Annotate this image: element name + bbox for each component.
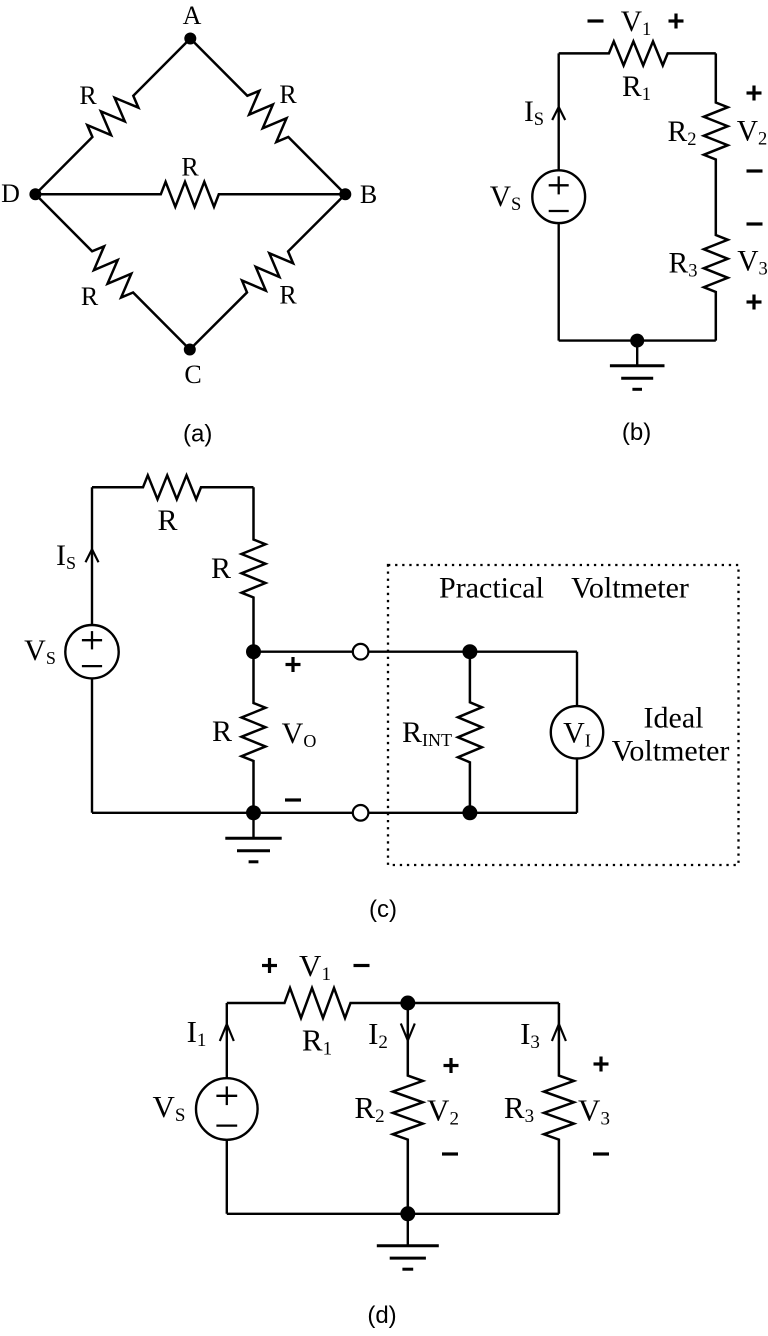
svg-text:VS: VS [490, 181, 522, 215]
resistor R2 (d) [393, 1003, 423, 1214]
label R (upper left) [79, 81, 97, 110]
node A [183, 1, 202, 45]
svg-text:R1: R1 [302, 1023, 332, 1060]
svg-text:Voltmeter: Voltmeter [571, 572, 689, 605]
svg-text:(c): (c) [369, 896, 397, 923]
label plus V1 minus (d) [262, 948, 370, 985]
junction dot mid-top (c) [246, 644, 261, 659]
resistor R1 (d) [227, 988, 408, 1018]
label R (lower left) [81, 282, 99, 311]
label minus (c) [285, 798, 301, 801]
label Practical Voltmeter (c) [439, 572, 689, 605]
svg-text:V2: V2 [427, 1093, 459, 1130]
svg-text:R1: R1 [622, 71, 651, 105]
svg-text:V1: V1 [621, 6, 652, 40]
resistor R right-vert (c) [242, 487, 266, 651]
node B [339, 180, 377, 209]
wire right (b) with R2 R3 [0, 0, 1, 1]
label R3 (d) [504, 1090, 534, 1127]
wire bottom (c) [92, 812, 577, 814]
wire top right (d) [408, 1002, 559, 1004]
svg-text:IS: IS [56, 539, 76, 573]
ground (b) [610, 341, 665, 390]
junction dot mid-bottom (c) [246, 805, 261, 820]
current arrow IS (c) [86, 549, 99, 562]
svg-text:I2: I2 [368, 1016, 388, 1053]
label I3 (d) [520, 1016, 540, 1053]
current arrow I2 (d) [401, 1024, 415, 1041]
caption (c) [369, 896, 397, 923]
label R (middle) [181, 153, 199, 182]
label I2 (d) [368, 1016, 388, 1053]
svg-text:R: R [212, 715, 232, 748]
node D [1, 179, 41, 208]
label R1 (d) [302, 1023, 332, 1060]
label Ideal Voltmeter (c) [612, 702, 730, 768]
wire bottom (d) [227, 1213, 559, 1215]
label plus V2 minus (d) [427, 1058, 459, 1154]
wire bottom (b) [559, 339, 716, 341]
svg-text:D: D [1, 179, 20, 208]
voltage source VS (d) [196, 1078, 258, 1140]
svg-text:R: R [279, 281, 297, 310]
wire left (d) with Vs gap [226, 1003, 228, 1214]
resistor R1 (b) [559, 41, 716, 65]
svg-text:Voltmeter: Voltmeter [612, 735, 730, 768]
label plus (c) [286, 657, 301, 672]
wire/resistor R (D to A) [35, 39, 190, 195]
junction dot rint-top (c) [462, 644, 477, 659]
svg-text:R: R [211, 552, 231, 585]
svg-text:R2: R2 [354, 1090, 384, 1127]
caption (d) [367, 1302, 396, 1329]
svg-text:RINT: RINT [402, 716, 452, 750]
svg-text:R: R [81, 282, 99, 311]
svg-text:R: R [181, 153, 199, 182]
node C [184, 344, 202, 390]
caption (a) [183, 421, 212, 448]
resistor R lower (c) [242, 652, 266, 813]
svg-text:(a): (a) [183, 421, 212, 448]
label R mid (c) [211, 552, 231, 585]
svg-text:(d): (d) [367, 1302, 396, 1329]
svg-text:I3: I3 [520, 1016, 540, 1053]
svg-text:VO: VO [282, 717, 317, 751]
junction dot rint-bottom (c) [462, 805, 477, 820]
label R (lower right) [279, 281, 297, 310]
voltage source VS (b) [532, 170, 585, 223]
svg-text:(b): (b) [622, 419, 651, 446]
resistor RINT (c) [458, 652, 482, 813]
svg-text:A: A [183, 1, 202, 30]
label IS (b) [524, 96, 544, 130]
current arrow I3 (d) [552, 1024, 566, 1041]
wire output top (c) [254, 651, 578, 653]
junction dot (b) [630, 334, 644, 348]
terminal open circle top (c) [353, 644, 369, 660]
label plus V2 minus (b) [737, 86, 768, 172]
wire ideal voltmeter (c) [576, 652, 578, 813]
svg-text:VI: VI [563, 716, 591, 750]
wire/resistor R (A to B) [190, 39, 345, 195]
svg-text:R: R [279, 80, 297, 109]
label I1 (d) [187, 1014, 207, 1051]
resistor R3 (b) [704, 197, 728, 341]
svg-text:I1: I1 [187, 1014, 207, 1051]
svg-text:V3: V3 [578, 1093, 610, 1130]
current arrow IS (b) [552, 107, 565, 120]
wire/resistor R (D to B) [35, 182, 345, 207]
svg-text:R: R [157, 504, 177, 537]
current arrow I1 (d) [220, 1024, 234, 1041]
svg-text:V2: V2 [737, 116, 768, 150]
label plus V3 minus (d) [578, 1057, 610, 1155]
label minus V1 plus (b) [588, 6, 684, 40]
ground (c) [225, 813, 281, 862]
label minus V3 plus (b) [737, 224, 768, 310]
svg-text:R2: R2 [668, 116, 697, 150]
label IS (c) [56, 539, 76, 573]
label R1 (b) [622, 71, 651, 105]
svg-text:V1: V1 [299, 948, 331, 985]
voltage source VS (c) [65, 625, 118, 678]
svg-text:Ideal: Ideal [644, 702, 704, 735]
label R3 (b) [669, 248, 698, 282]
label VS (c) [24, 634, 56, 668]
label RINT (c) [402, 716, 452, 750]
svg-text:VS: VS [24, 634, 56, 668]
resistor R2 (b) [704, 53, 728, 197]
label VS (b) [490, 181, 522, 215]
label R2 (d) [354, 1090, 384, 1127]
ground (d) [377, 1214, 439, 1269]
label VO (c) [282, 717, 317, 751]
terminal open circle bottom (c) [353, 805, 369, 821]
label R (upper right) [279, 80, 297, 109]
svg-text:R3: R3 [669, 248, 698, 282]
junction dot bottom (d) [400, 1206, 415, 1221]
label R lower (c) [212, 715, 232, 748]
label VS (d) [153, 1089, 186, 1126]
svg-text:IS: IS [524, 96, 544, 130]
svg-text:Practical: Practical [439, 572, 544, 605]
label R top (c) [157, 504, 177, 537]
junction dot top (d) [400, 996, 415, 1011]
wire/resistor R (D to C) [35, 194, 189, 349]
wire/resistor R (C to B) [190, 194, 345, 349]
resistor R3 (d) [544, 1003, 574, 1214]
svg-text:C: C [184, 360, 201, 389]
resistor R top (c) [92, 475, 254, 499]
ideal voltmeter VI (c) [551, 706, 603, 758]
dotted box practical voltmeter (c) [388, 565, 739, 865]
svg-text:R3: R3 [504, 1090, 534, 1127]
svg-text:V3: V3 [737, 246, 768, 280]
wire left (b) with Vs gap [558, 53, 560, 340]
wire left (c) with Vs gap [91, 487, 93, 813]
svg-text:VS: VS [153, 1089, 186, 1126]
svg-text:R: R [79, 81, 97, 110]
svg-text:B: B [360, 180, 377, 209]
label R2 (b) [668, 116, 697, 150]
caption (b) [622, 419, 651, 446]
